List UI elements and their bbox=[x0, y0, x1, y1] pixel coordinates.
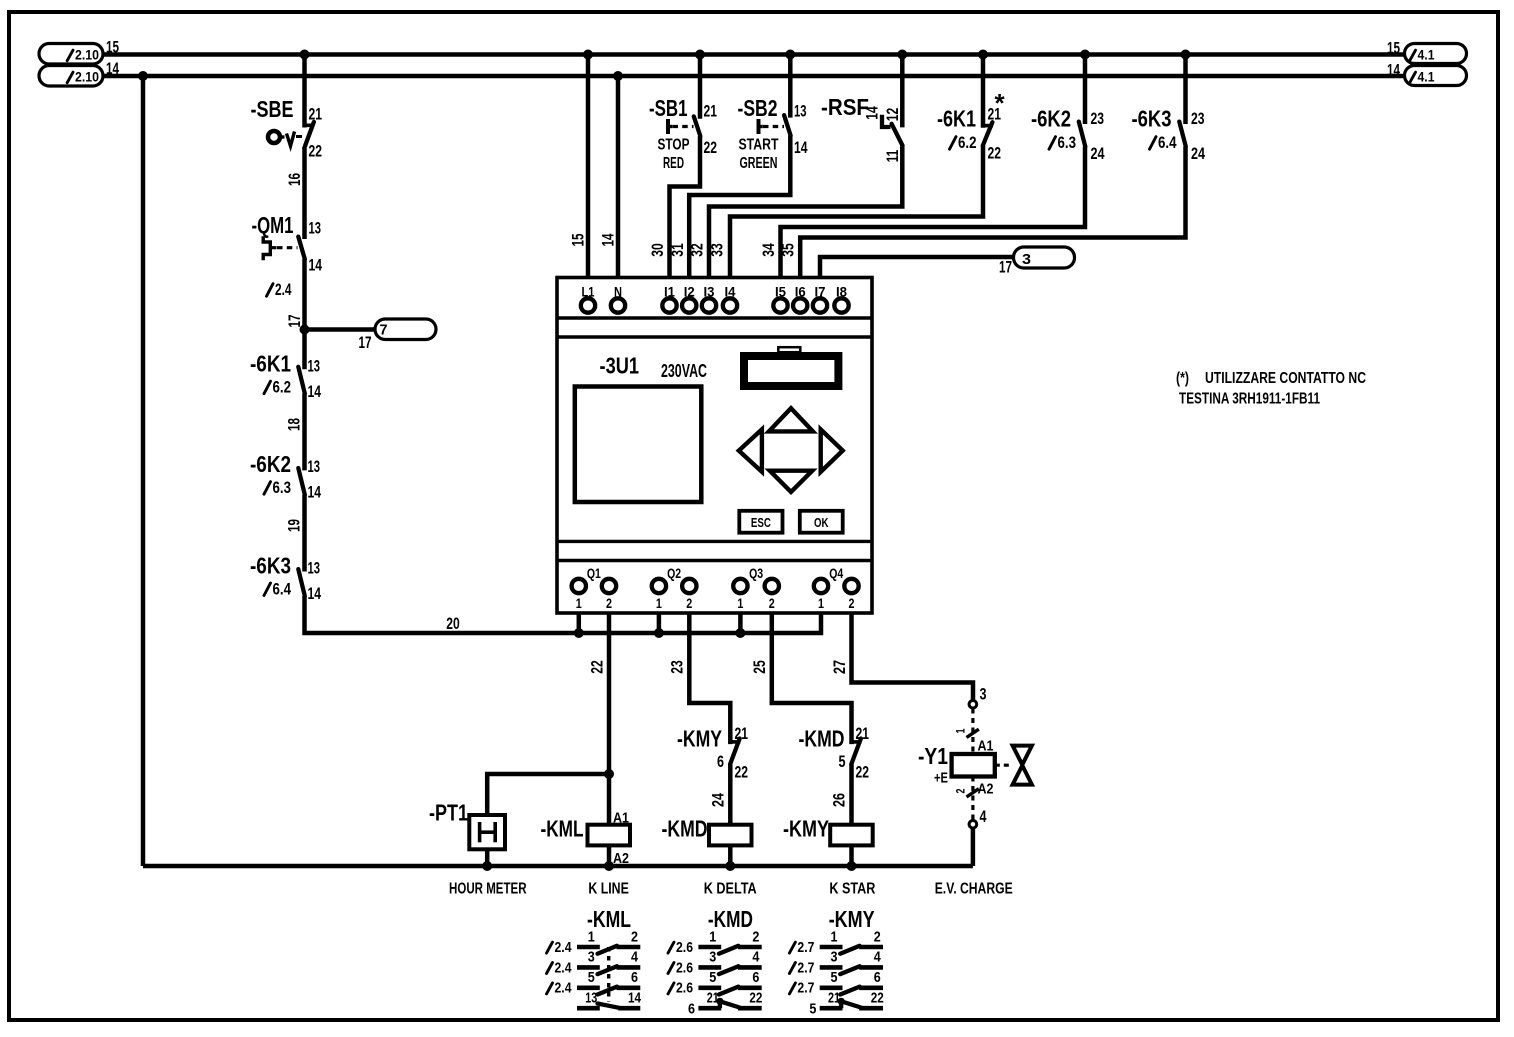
svg-text:OK: OK bbox=[814, 516, 829, 530]
svg-text:2.4: 2.4 bbox=[555, 939, 573, 956]
display window of -3U1 bbox=[575, 387, 702, 503]
solenoid valve coil -Y1 bbox=[952, 754, 995, 777]
wire 22 from Q1-2 to coil -KML bbox=[607, 613, 612, 825]
svg-text:I6: I6 bbox=[795, 284, 806, 300]
svg-text:25: 25 bbox=[750, 660, 769, 674]
svg-text:2.10: 2.10 bbox=[75, 69, 99, 85]
svg-text:14: 14 bbox=[628, 990, 642, 1007]
svg-text:2: 2 bbox=[849, 595, 855, 611]
svg-text:14: 14 bbox=[863, 106, 882, 120]
svg-text:2.6: 2.6 bbox=[676, 939, 693, 956]
svg-text:-PT1: -PT1 bbox=[429, 800, 468, 826]
wire 17 from -QM1 to junction bbox=[302, 259, 307, 369]
svg-text:14: 14 bbox=[308, 584, 322, 603]
svg-text:L1: L1 bbox=[582, 284, 595, 300]
svg-text:1: 1 bbox=[831, 928, 838, 945]
svg-text:3: 3 bbox=[980, 685, 987, 704]
svg-text:23: 23 bbox=[1091, 109, 1105, 128]
destination arrow tag /4.1 net 15 (right) bbox=[1405, 44, 1467, 64]
svg-text:7: 7 bbox=[380, 322, 388, 339]
wire branch to -PT1 bbox=[487, 774, 609, 815]
wire 32 from -RSF to I3 bbox=[709, 146, 902, 278]
svg-text:14: 14 bbox=[308, 382, 322, 401]
terminal I4 of -3U1 bbox=[723, 298, 737, 312]
node 17 junction bbox=[300, 325, 310, 335]
svg-text:14: 14 bbox=[1387, 61, 1400, 80]
svg-text:-QM1: -QM1 bbox=[252, 212, 294, 238]
auxiliary contact -6K1 (NC 21-22) with asterisk bbox=[981, 55, 986, 128]
svg-text:I3: I3 bbox=[704, 284, 715, 300]
wire 24 from contact -KMY to coil -KMD bbox=[728, 764, 733, 825]
svg-text:22: 22 bbox=[704, 138, 718, 157]
svg-text:Q1: Q1 bbox=[587, 565, 601, 581]
svg-text:32: 32 bbox=[688, 243, 707, 257]
svg-text:1: 1 bbox=[818, 595, 824, 611]
svg-text:35: 35 bbox=[779, 243, 798, 257]
svg-text:22: 22 bbox=[856, 763, 870, 782]
svg-text:2: 2 bbox=[874, 928, 881, 945]
svg-text:17: 17 bbox=[359, 333, 372, 352]
svg-text:27: 27 bbox=[830, 660, 849, 674]
svg-text:33: 33 bbox=[708, 243, 727, 257]
svg-text:E.V. CHARGE: E.V. CHARGE bbox=[935, 881, 1013, 898]
valve symbol bbox=[995, 764, 1011, 767]
svg-text:16: 16 bbox=[285, 173, 304, 186]
svg-text:I7: I7 bbox=[815, 284, 826, 300]
stop pushbutton -SB1 (NC 21-22) bbox=[698, 55, 703, 119]
wire terminal 4 to rail bbox=[971, 828, 976, 866]
svg-text:-KML: -KML bbox=[541, 816, 584, 842]
wire 19 bbox=[302, 495, 307, 572]
wire Q2-1 to rail 20 bbox=[657, 613, 662, 633]
connector pin 1 dashed link bbox=[971, 709, 974, 754]
svg-text:21: 21 bbox=[856, 724, 870, 743]
wire 26 from contact -KMD to coil -KMY bbox=[849, 764, 854, 825]
svg-text:6: 6 bbox=[688, 1001, 695, 1018]
svg-text:6: 6 bbox=[874, 969, 881, 986]
button ESC bbox=[739, 511, 782, 533]
svg-text:-KMY: -KMY bbox=[677, 726, 722, 752]
svg-text:6.3: 6.3 bbox=[273, 478, 292, 497]
svg-text:15: 15 bbox=[1387, 39, 1400, 58]
svg-text:2: 2 bbox=[769, 595, 775, 611]
svg-text:2.4: 2.4 bbox=[555, 980, 573, 997]
svg-text:6.3: 6.3 bbox=[1058, 133, 1077, 152]
svg-text:UTILIZZARE CONTATTO NC: UTILIZZARE CONTATTO NC bbox=[1205, 370, 1366, 387]
pushbutton actuator of -SB2 bbox=[757, 119, 761, 134]
auxiliary contact -6K2 (NO 23-24) bbox=[1083, 55, 1088, 125]
svg-text:5: 5 bbox=[831, 969, 838, 986]
svg-text:K STAR: K STAR bbox=[829, 881, 875, 898]
svg-text:-6K3: -6K3 bbox=[1132, 106, 1172, 132]
svg-text:2.7: 2.7 bbox=[797, 939, 814, 956]
svg-text:-6K1: -6K1 bbox=[250, 351, 291, 377]
svg-text:2: 2 bbox=[631, 928, 638, 945]
cursor key right bbox=[821, 429, 843, 471]
svg-text:(*): (*) bbox=[1176, 370, 1189, 387]
svg-text:3: 3 bbox=[588, 949, 595, 966]
svg-text:3: 3 bbox=[831, 949, 838, 966]
logic module -3U1 outline bbox=[557, 278, 872, 614]
circuit breaker aux contact -QM1 (13-14) bbox=[298, 237, 305, 259]
contactor coil -KMY bbox=[830, 825, 873, 846]
svg-text:2: 2 bbox=[954, 788, 968, 793]
svg-text:A1: A1 bbox=[613, 810, 629, 827]
svg-text:23: 23 bbox=[668, 660, 687, 674]
auxiliary contact -6K1 (13-14) left column bbox=[298, 367, 305, 394]
svg-text:26: 26 bbox=[830, 793, 849, 807]
svg-text:19: 19 bbox=[285, 519, 304, 532]
terminal I3 of -3U1 bbox=[702, 298, 716, 312]
svg-text:5: 5 bbox=[709, 969, 716, 986]
wire to potential tag 7 bbox=[305, 327, 376, 332]
svg-text:6: 6 bbox=[717, 752, 724, 771]
svg-text:2: 2 bbox=[606, 595, 612, 611]
terminal L1 of -3U1 bbox=[581, 298, 595, 312]
wire -PT1 to rail bbox=[485, 849, 490, 866]
terminal N of -3U1 bbox=[611, 298, 625, 312]
bottom return rail bbox=[143, 864, 973, 869]
svg-text:+E: +E bbox=[934, 770, 948, 787]
svg-text:2.7: 2.7 bbox=[797, 980, 814, 997]
interlock contact -KMY (NC 21-22) bbox=[730, 740, 740, 744]
svg-text:13: 13 bbox=[309, 219, 322, 238]
pushbutton actuator of -SB1 bbox=[666, 119, 670, 134]
wire 18 bbox=[302, 394, 307, 471]
junction on bus 15 at -SBE column bbox=[300, 50, 310, 60]
terminal I6 of -3U1 bbox=[793, 298, 807, 312]
svg-text:-6K3: -6K3 bbox=[250, 552, 291, 578]
wire 34 from -6K2 to I5 bbox=[781, 147, 1086, 278]
changeover contact -RSF (11-12-14) bbox=[900, 55, 905, 128]
svg-text:24: 24 bbox=[1091, 144, 1105, 163]
svg-text:20: 20 bbox=[446, 614, 460, 633]
wire 27 from Q4-2 to -Y1 branch bbox=[852, 613, 974, 701]
mechanical link of -KML bbox=[607, 947, 610, 1002]
svg-text:2: 2 bbox=[752, 928, 759, 945]
trip mechanism symbol of -QM1 bbox=[263, 236, 270, 260]
svg-text:-SB1: -SB1 bbox=[649, 95, 688, 121]
svg-text:30: 30 bbox=[648, 243, 667, 257]
svg-text:I8: I8 bbox=[836, 284, 847, 300]
cursor key up bbox=[769, 408, 813, 431]
hour meter -PT1 bbox=[469, 815, 505, 849]
svg-text:6.2: 6.2 bbox=[273, 378, 292, 397]
potential arrow tag 3 bbox=[1014, 247, 1075, 268]
svg-text:ESC: ESC bbox=[751, 516, 771, 530]
wire 33 from -6K1 to I4 bbox=[730, 146, 983, 278]
button OK bbox=[800, 511, 843, 533]
svg-text:14: 14 bbox=[308, 483, 322, 502]
terminal Q3 of -3U1 bbox=[733, 579, 747, 593]
svg-text:N: N bbox=[614, 284, 622, 300]
svg-text:13: 13 bbox=[794, 102, 807, 121]
wire 31 from -SB2 to I2 bbox=[689, 136, 790, 278]
svg-text:5: 5 bbox=[809, 1001, 816, 1018]
svg-text:17: 17 bbox=[285, 315, 304, 328]
svg-text:1: 1 bbox=[576, 595, 582, 611]
wire 20 from -6K3 to PLC outputs bbox=[305, 596, 822, 633]
junction on bus 14 bbox=[138, 71, 148, 81]
svg-text:6.4: 6.4 bbox=[273, 579, 292, 598]
svg-text:13: 13 bbox=[308, 357, 321, 376]
interlock contact -KMD (NC 21-22) bbox=[852, 740, 862, 744]
svg-text:22: 22 bbox=[588, 660, 607, 674]
junction to hour meter branch bbox=[604, 769, 614, 779]
svg-text:21: 21 bbox=[828, 990, 840, 1007]
svg-text:*: * bbox=[995, 88, 1006, 118]
svg-text:6: 6 bbox=[752, 969, 759, 986]
svg-text:-SB2: -SB2 bbox=[738, 95, 778, 121]
svg-text:21: 21 bbox=[735, 724, 749, 743]
terminal I8 of -3U1 bbox=[834, 298, 848, 312]
svg-text:I1: I1 bbox=[664, 284, 675, 300]
wire Q3-1 to rail 20 bbox=[738, 613, 743, 633]
svg-text:13: 13 bbox=[308, 457, 321, 476]
terminal I7 of -3U1 bbox=[813, 298, 827, 312]
svg-text:15: 15 bbox=[106, 38, 119, 57]
svg-text:13: 13 bbox=[308, 558, 321, 577]
svg-text:4.1: 4.1 bbox=[1418, 69, 1435, 85]
svg-text:1: 1 bbox=[709, 928, 716, 945]
svg-text:A2: A2 bbox=[978, 781, 994, 798]
wire Q1-1 to rail 20 bbox=[577, 613, 582, 633]
svg-text:2: 2 bbox=[686, 595, 692, 611]
wire 25 from Q3-2 to contact -KMD bbox=[772, 613, 852, 744]
svg-text:-KMD: -KMD bbox=[799, 726, 845, 752]
svg-text:GREEN: GREEN bbox=[740, 155, 778, 172]
terminal I1 of -3U1 bbox=[662, 298, 676, 312]
mushroom head actuator of -SBE bbox=[268, 131, 280, 143]
contactor coil -KML bbox=[588, 825, 631, 846]
svg-text:HOUR METER: HOUR METER bbox=[449, 881, 527, 898]
wire from bus 14 to bottom rail bbox=[141, 76, 146, 866]
svg-text:3: 3 bbox=[709, 949, 716, 966]
svg-text:5: 5 bbox=[839, 752, 846, 771]
wire bus 15 to contact -SBE bbox=[302, 55, 307, 128]
svg-text:6: 6 bbox=[631, 969, 638, 986]
svg-text:34: 34 bbox=[759, 243, 778, 257]
svg-text:START: START bbox=[739, 137, 779, 154]
terminal point 4 bbox=[969, 821, 977, 829]
terminal I2 of -3U1 bbox=[682, 298, 696, 312]
svg-text:2.10: 2.10 bbox=[75, 47, 99, 63]
svg-text:2.4: 2.4 bbox=[555, 959, 573, 976]
svg-text:Q2: Q2 bbox=[667, 565, 681, 581]
wire 30 from -SB1 to I1 bbox=[670, 136, 701, 278]
svg-text:21: 21 bbox=[309, 105, 323, 124]
svg-text:-SBE: -SBE bbox=[251, 96, 294, 122]
svg-text:-3U1: -3U1 bbox=[600, 353, 640, 379]
svg-text:4: 4 bbox=[874, 949, 882, 966]
svg-text:K LINE: K LINE bbox=[588, 881, 629, 898]
source arrow tag /2.10 net 14 (left) bbox=[39, 66, 103, 87]
bottom terminal strip lines bbox=[557, 540, 872, 543]
top terminal strip lines bbox=[557, 316, 872, 319]
svg-text:22: 22 bbox=[871, 990, 884, 1007]
svg-text:4: 4 bbox=[980, 807, 987, 826]
contactor coil -KMD bbox=[709, 825, 752, 846]
svg-text:12: 12 bbox=[883, 108, 902, 122]
cursor key down bbox=[770, 471, 813, 492]
svg-text:2.6: 2.6 bbox=[676, 959, 693, 976]
svg-text:2.6: 2.6 bbox=[676, 980, 693, 997]
svg-text:4: 4 bbox=[631, 949, 639, 966]
svg-text:22: 22 bbox=[988, 144, 1002, 163]
svg-text:1: 1 bbox=[588, 928, 595, 945]
svg-text:22: 22 bbox=[749, 990, 762, 1007]
terminal I5 of -3U1 bbox=[773, 298, 787, 312]
svg-text:15: 15 bbox=[569, 234, 588, 247]
destination arrow tag /4.1 net 14 (right) bbox=[1405, 66, 1467, 86]
svg-text:Q3: Q3 bbox=[749, 565, 763, 581]
svg-text:-6K2: -6K2 bbox=[1031, 106, 1071, 132]
svg-text:230VAC: 230VAC bbox=[661, 361, 707, 381]
svg-text:I2: I2 bbox=[684, 284, 695, 300]
svg-text:5: 5 bbox=[588, 969, 595, 986]
svg-text:-6K2: -6K2 bbox=[250, 451, 291, 477]
terminal Q4 of -3U1 bbox=[814, 579, 828, 593]
auxiliary contact -6K3 (13-14) left column bbox=[298, 569, 305, 596]
wire N from bus 14 bbox=[616, 76, 621, 278]
svg-text:24: 24 bbox=[1191, 144, 1205, 163]
svg-text:2.7: 2.7 bbox=[797, 959, 814, 976]
svg-text:14: 14 bbox=[794, 138, 808, 157]
svg-text:4: 4 bbox=[752, 949, 760, 966]
svg-text:21: 21 bbox=[704, 102, 718, 121]
svg-text:6.2: 6.2 bbox=[958, 133, 977, 152]
terminal Q1 of -3U1 bbox=[572, 579, 586, 593]
wire 17 from potential tag 3 to I7 bbox=[820, 257, 1014, 278]
svg-text:1: 1 bbox=[954, 728, 968, 733]
svg-text:I5: I5 bbox=[775, 284, 786, 300]
svg-text:21: 21 bbox=[707, 990, 719, 1007]
svg-text:31: 31 bbox=[668, 243, 687, 257]
svg-text:Q4: Q4 bbox=[829, 565, 843, 581]
svg-text:23: 23 bbox=[1191, 109, 1205, 128]
svg-text:24: 24 bbox=[709, 793, 728, 807]
svg-text:4.1: 4.1 bbox=[1418, 47, 1435, 63]
wire -KMD coil to rail bbox=[728, 845, 733, 866]
auxiliary contact -6K2 (13-14) left column bbox=[298, 468, 305, 495]
wire 35 from -6K3 to I6 bbox=[800, 147, 1185, 278]
svg-text:I4: I4 bbox=[725, 284, 736, 300]
svg-text:11: 11 bbox=[883, 150, 902, 163]
svg-text:14: 14 bbox=[599, 233, 618, 246]
potential arrow tag 7 bbox=[375, 319, 436, 340]
svg-text:-Y1: -Y1 bbox=[918, 743, 948, 769]
svg-text:17: 17 bbox=[999, 258, 1012, 277]
svg-text:STOP: STOP bbox=[658, 137, 690, 154]
wire 16 from -SBE to -QM1 bbox=[302, 148, 307, 239]
wire L1 from bus 15 bbox=[586, 55, 591, 278]
svg-text:2.4: 2.4 bbox=[275, 280, 292, 299]
wire 23 from Q2-2 to contact -KMY bbox=[689, 613, 730, 744]
program cartridge slot bbox=[744, 356, 838, 386]
svg-text:18: 18 bbox=[285, 418, 304, 431]
svg-text:-KMD: -KMD bbox=[662, 816, 708, 842]
svg-text:-KMY: -KMY bbox=[783, 816, 829, 842]
svg-text:TESTINA 3RH1911-1FB11: TESTINA 3RH1911-1FB11 bbox=[1179, 391, 1320, 408]
svg-text:-6K1: -6K1 bbox=[937, 106, 976, 132]
svg-text:3: 3 bbox=[1022, 251, 1031, 268]
svg-text:1: 1 bbox=[656, 595, 662, 611]
terminal point 3 bbox=[969, 701, 977, 709]
auxiliary contact -6K3 (NO 23-24) bbox=[1183, 55, 1188, 125]
bus line net 14 bbox=[103, 74, 1405, 79]
svg-text:6.4: 6.4 bbox=[1158, 133, 1177, 152]
emergency stop contact -SBE (NC 21-22) bbox=[305, 124, 315, 128]
svg-text:14: 14 bbox=[309, 256, 323, 275]
wire -KMY coil to rail bbox=[849, 845, 854, 866]
cursor key left bbox=[739, 429, 762, 471]
svg-text:RED: RED bbox=[663, 155, 684, 172]
source arrow tag /2.10 net 15 (left) bbox=[39, 44, 103, 65]
svg-text:1: 1 bbox=[737, 595, 743, 611]
svg-text:22: 22 bbox=[309, 142, 323, 161]
terminal Q2 of -3U1 bbox=[652, 579, 666, 593]
start pushbutton -SB2 (NO 13-14) bbox=[788, 55, 793, 118]
svg-text:22: 22 bbox=[735, 763, 749, 782]
svg-text:14: 14 bbox=[106, 59, 119, 78]
wire -KML A2 to rail bbox=[607, 845, 612, 866]
bus line net 15 bbox=[103, 52, 1405, 57]
svg-text:K DELTA: K DELTA bbox=[704, 881, 757, 898]
